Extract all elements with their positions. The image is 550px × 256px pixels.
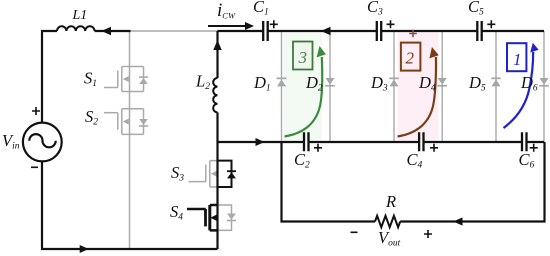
svg-text:1: 1 xyxy=(513,50,522,69)
svg-text:L1: L1 xyxy=(72,8,88,23)
svg-text:R: R xyxy=(385,192,396,211)
svg-text:2: 2 xyxy=(406,49,415,68)
svg-text:3: 3 xyxy=(298,48,308,67)
